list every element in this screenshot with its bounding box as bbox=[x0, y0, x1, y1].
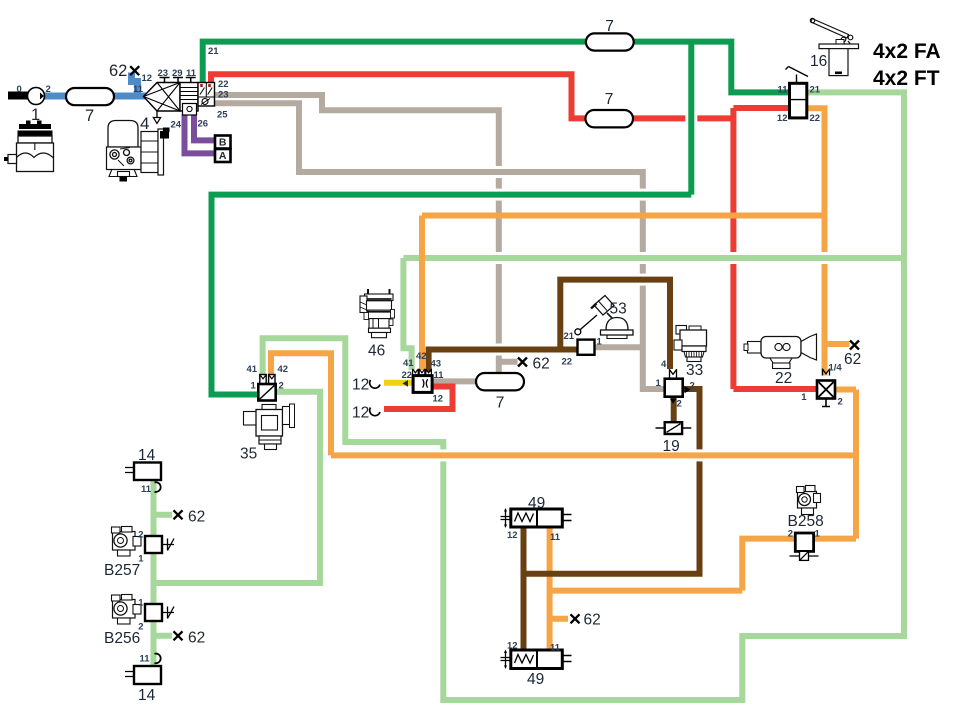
wire red to X-valve port 1 bbox=[733, 386, 816, 392]
svg-text:41: 41 bbox=[403, 358, 414, 369]
wire orange lower distribution bbox=[331, 390, 856, 591]
wire blue test stub 12 bbox=[132, 73, 138, 97]
svg-text:2: 2 bbox=[138, 622, 143, 633]
svg-text:41: 41 bbox=[247, 364, 258, 375]
port labels valve 42 bbox=[402, 351, 445, 405]
wire green branch vertical bbox=[688, 42, 694, 195]
wire gray from switch 53 bbox=[595, 344, 643, 350]
svg-text:1/4: 1/4 bbox=[829, 363, 843, 374]
label brake chamber 49 bottom bbox=[507, 641, 561, 689]
label relay valve 46 bbox=[368, 343, 385, 360]
solenoid illustration B257 bbox=[112, 527, 142, 557]
solenoid valve 35 symbol bbox=[258, 375, 275, 401]
drain valve 19 symbol bbox=[656, 422, 692, 434]
pressure limiting valve 42 symbol bbox=[413, 369, 433, 393]
foot brake valve 16 symbol bbox=[786, 67, 809, 118]
wire gray line 23 from dryer bbox=[214, 95, 518, 373]
reservoir 7 green bbox=[586, 33, 634, 50]
svg-text:42: 42 bbox=[416, 351, 427, 362]
junction white gap bbox=[639, 252, 646, 264]
test point X gray bbox=[518, 358, 527, 367]
svg-text:46: 46 bbox=[368, 343, 385, 360]
port label 0 bbox=[17, 84, 51, 95]
svg-text:62: 62 bbox=[188, 509, 205, 526]
junction white gap for orange main bbox=[419, 216, 425, 371]
svg-text:62: 62 bbox=[533, 356, 550, 373]
port labels air dryer bbox=[158, 46, 229, 131]
svg-text:2: 2 bbox=[838, 397, 843, 408]
svg-text:62: 62 bbox=[844, 351, 861, 368]
junction white gap bbox=[696, 449, 703, 461]
hose coupling 12 yellow bbox=[370, 380, 380, 388]
label couplings 12 bbox=[352, 377, 369, 422]
air tank 14 bottom bbox=[125, 654, 161, 684]
svg-text:1: 1 bbox=[31, 106, 40, 124]
svg-text:1: 1 bbox=[138, 554, 144, 565]
abs valve illustration 35 bbox=[244, 404, 295, 450]
svg-text:B: B bbox=[219, 137, 227, 149]
label air dryer 4 bbox=[140, 114, 149, 133]
label tank 14 bottom bbox=[138, 654, 156, 705]
quick release valve 22 symbol bbox=[817, 369, 835, 407]
label test point 62 green lower bbox=[188, 630, 205, 647]
svg-text:B257: B257 bbox=[104, 562, 140, 579]
svg-text:23: 23 bbox=[218, 90, 229, 101]
sensor illustration 53 bbox=[591, 296, 633, 339]
svg-text:2: 2 bbox=[788, 529, 793, 540]
label solenoid B256 bbox=[104, 598, 144, 648]
wire purple 24 to connector A bbox=[185, 115, 216, 154]
junction white gap bbox=[495, 189, 502, 201]
port labels valve 33 bbox=[656, 359, 695, 410]
label foot valve 16 bbox=[810, 53, 827, 70]
svg-text:22: 22 bbox=[402, 370, 413, 381]
svg-text:B258: B258 bbox=[788, 513, 824, 530]
svg-text:14: 14 bbox=[138, 687, 156, 704]
svg-text:62: 62 bbox=[188, 630, 205, 647]
svg-text:26: 26 bbox=[198, 119, 209, 130]
wire gray valve port 11 to reservoir bbox=[431, 378, 477, 384]
junction white gap bbox=[639, 274, 646, 286]
svg-text:2: 2 bbox=[677, 399, 682, 410]
svg-text:33: 33 bbox=[686, 362, 703, 379]
reservoir 7 gray bbox=[476, 373, 524, 390]
junction white gap bbox=[685, 115, 697, 122]
junction white gap bbox=[440, 449, 447, 461]
port labels switch 53 bbox=[562, 331, 603, 368]
svg-text:21: 21 bbox=[810, 85, 821, 96]
connector box A bbox=[215, 149, 231, 162]
test point X light green lower bbox=[174, 631, 183, 640]
svg-text:43: 43 bbox=[431, 359, 442, 370]
svg-text:62: 62 bbox=[584, 612, 601, 629]
test point X orange upper bbox=[850, 341, 859, 350]
svg-text:4x2 FT: 4x2 FT bbox=[873, 67, 940, 90]
svg-text:2: 2 bbox=[690, 381, 695, 392]
label test point 62 green upper bbox=[188, 509, 205, 526]
svg-text:14: 14 bbox=[138, 447, 156, 464]
svg-text:A: A bbox=[219, 150, 227, 162]
svg-text:2: 2 bbox=[138, 530, 143, 541]
svg-text:22: 22 bbox=[562, 357, 573, 368]
wire brown valve 33 port 2 to chambers 49 bbox=[524, 389, 700, 650]
air dryer illustration bbox=[107, 121, 170, 182]
wire orange main distribution bbox=[422, 213, 825, 219]
test point X light green upper bbox=[174, 510, 183, 519]
label test point 62 orange upper bbox=[844, 351, 861, 368]
svg-text:12: 12 bbox=[777, 113, 788, 124]
label compressor 1 bbox=[31, 106, 40, 124]
wire green main 21 bbox=[203, 42, 790, 93]
overflow valve 33 symbol bbox=[665, 369, 691, 404]
wire blue supply line bbox=[44, 93, 146, 100]
solenoid valve B257 symbol bbox=[145, 536, 174, 553]
wire gray line 25 from dryer bbox=[214, 103, 665, 389]
wire light green valve 35 port 2 to solenoid chain bbox=[154, 392, 321, 583]
svg-text:12: 12 bbox=[507, 641, 518, 652]
svg-text:12: 12 bbox=[142, 73, 153, 84]
wire yellow control line bbox=[384, 380, 413, 386]
svg-text:49: 49 bbox=[527, 671, 544, 688]
solenoid valve B256 symbol bbox=[145, 604, 174, 621]
svg-text:1: 1 bbox=[251, 381, 257, 392]
foot pedal illustration 16 bbox=[810, 18, 858, 75]
wire green to valve 35 port 1 bbox=[212, 195, 692, 395]
junction white gap bbox=[495, 166, 502, 178]
relay valve illustration 46 bbox=[360, 289, 395, 338]
label reservoir 7 red bbox=[605, 91, 614, 108]
svg-text:11: 11 bbox=[186, 68, 197, 79]
svg-text:16: 16 bbox=[810, 53, 827, 70]
junction white gap bbox=[495, 252, 502, 264]
svg-text:25: 25 bbox=[217, 110, 228, 121]
label sensor 53 bbox=[610, 301, 627, 318]
svg-text:35: 35 bbox=[240, 446, 257, 463]
svg-text:1: 1 bbox=[597, 337, 603, 348]
label reservoir 7 gray bbox=[496, 395, 505, 412]
label tank 14 top bbox=[138, 447, 156, 495]
connector box B bbox=[215, 136, 231, 149]
svg-text:4x2 FA: 4x2 FA bbox=[873, 40, 941, 63]
svg-text:4: 4 bbox=[661, 359, 667, 370]
svg-text:2: 2 bbox=[279, 381, 284, 392]
label drain valve 19 bbox=[663, 438, 680, 455]
label valve 35 bbox=[240, 446, 257, 463]
solenoid illustration B258 bbox=[797, 486, 821, 515]
label brake chamber 49 top bbox=[507, 495, 561, 543]
solenoid illustration B256 bbox=[112, 595, 142, 625]
svg-text:11: 11 bbox=[140, 654, 151, 665]
svg-text:4: 4 bbox=[140, 114, 149, 133]
wire light green to valve port 41 bbox=[403, 258, 411, 370]
svg-text:12: 12 bbox=[352, 405, 369, 422]
svg-text:2: 2 bbox=[46, 84, 51, 95]
svg-text:1: 1 bbox=[801, 392, 807, 403]
pressure switch 53 symbol bbox=[575, 315, 597, 355]
title 4x2 FA FT bbox=[873, 40, 941, 90]
wire red vertical to valve 22 bbox=[730, 108, 736, 389]
junction white gap bbox=[495, 344, 502, 356]
svg-text:22: 22 bbox=[218, 79, 229, 90]
wire red to foot valve port 12 bbox=[733, 105, 789, 111]
junction white gap bbox=[730, 252, 737, 264]
air tank 14 top bbox=[125, 463, 161, 492]
wire light green solenoid chain bbox=[154, 479, 173, 666]
brake chamber 49 bottom bbox=[501, 650, 572, 670]
svg-text:24: 24 bbox=[171, 120, 182, 131]
svg-text:1: 1 bbox=[138, 598, 144, 609]
svg-text:22: 22 bbox=[810, 113, 821, 124]
svg-text:7: 7 bbox=[605, 18, 614, 35]
svg-text:12: 12 bbox=[433, 394, 444, 405]
wire black inlet port 0 bbox=[8, 92, 30, 100]
svg-text:12: 12 bbox=[352, 377, 369, 394]
wire red line 22 from dryer bbox=[211, 74, 733, 118]
svg-text:29: 29 bbox=[172, 68, 183, 79]
hose coupling 12 red bbox=[370, 408, 380, 416]
wire light green foot valve 21 loop bbox=[263, 92, 904, 700]
port labels quick release valve bbox=[801, 363, 843, 408]
label test point 62 blue bbox=[109, 62, 152, 95]
label horn 22 bbox=[775, 370, 792, 387]
svg-text:22: 22 bbox=[775, 370, 792, 387]
svg-text:21: 21 bbox=[208, 46, 219, 57]
svg-text:12: 12 bbox=[507, 530, 518, 541]
junction white gap bbox=[821, 252, 828, 264]
port labels valve 35 bbox=[247, 364, 289, 392]
wire red valve 42 port 12 bbox=[384, 387, 453, 410]
svg-text:11: 11 bbox=[777, 85, 788, 96]
compressor symbol 1 bbox=[28, 88, 45, 105]
yellow line arrow bbox=[403, 380, 409, 387]
port labels foot valve bbox=[777, 85, 821, 125]
svg-text:11: 11 bbox=[133, 84, 144, 95]
test point X blue bbox=[130, 66, 139, 75]
test point X orange lower bbox=[571, 614, 580, 623]
svg-text:23: 23 bbox=[158, 68, 169, 79]
svg-text:11: 11 bbox=[434, 370, 445, 381]
svg-text:0: 0 bbox=[17, 84, 22, 95]
wire orange foot valve 22 down bbox=[807, 108, 850, 375]
label valve 33 bbox=[686, 362, 703, 379]
label reservoir 7 green bbox=[605, 18, 614, 35]
wire orange to brake chambers 49 bbox=[550, 527, 743, 650]
reservoir 7 red bbox=[586, 110, 634, 127]
svg-text:19: 19 bbox=[663, 438, 680, 455]
wire brown valve 42 port 43 to switch 53 bbox=[429, 350, 578, 373]
svg-text:62: 62 bbox=[109, 62, 127, 80]
svg-text:7: 7 bbox=[496, 395, 505, 412]
svg-text:11: 11 bbox=[550, 643, 561, 654]
svg-text:B256: B256 bbox=[104, 630, 140, 647]
svg-text:21: 21 bbox=[564, 331, 575, 342]
svg-text:7: 7 bbox=[605, 91, 614, 108]
valve illustration 33 bbox=[674, 326, 707, 362]
solenoid valve B258 symbol bbox=[790, 533, 819, 560]
air dryer unit 4 symbol bbox=[144, 78, 215, 124]
compressor illustration bbox=[4, 121, 54, 172]
label test point 62 orange lower bbox=[584, 612, 601, 629]
air horn illustration 22 bbox=[744, 334, 817, 369]
label reservoir 7 blue bbox=[85, 107, 94, 125]
reservoir 7 blue bbox=[66, 88, 114, 105]
wire brown riser to valve 33 port 4 bbox=[560, 280, 670, 369]
wire purple 26 to connector B bbox=[194, 115, 215, 141]
junction white gap bbox=[639, 189, 646, 201]
wire orange valve 35 port 42 branch bbox=[271, 353, 331, 455]
brake chamber 49 top bbox=[501, 508, 572, 528]
wire light green crossmember bbox=[403, 255, 904, 261]
svg-text:49: 49 bbox=[528, 495, 545, 512]
svg-text:53: 53 bbox=[610, 301, 627, 318]
label solenoid B258 bbox=[788, 513, 824, 540]
svg-text:11: 11 bbox=[550, 532, 561, 543]
svg-text:42: 42 bbox=[278, 364, 289, 375]
svg-text:1: 1 bbox=[656, 378, 662, 389]
label test point 62 gray bbox=[533, 356, 550, 373]
wire brown valve 33 to valve 19 bbox=[671, 397, 677, 422]
label solenoid B257 bbox=[104, 530, 144, 580]
svg-text:1: 1 bbox=[815, 529, 821, 540]
svg-text:7: 7 bbox=[85, 107, 94, 125]
svg-text:11: 11 bbox=[141, 484, 152, 495]
